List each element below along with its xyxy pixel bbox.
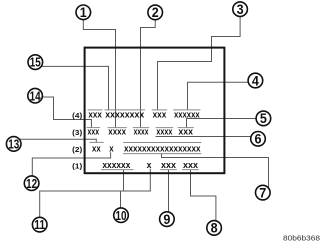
svg-text:xxxx: xxxx xyxy=(156,127,173,138)
svg-text:x: x xyxy=(109,144,114,155)
svg-text:xxxx: xxxx xyxy=(134,127,149,138)
svg-text:xxx: xxx xyxy=(178,127,193,138)
svg-text:x: x xyxy=(147,160,152,171)
svg-text:14: 14 xyxy=(30,88,42,103)
svg-text:xxx: xxx xyxy=(88,127,100,138)
svg-text:5: 5 xyxy=(260,110,267,126)
svg-text:1: 1 xyxy=(80,4,87,20)
svg-text:8: 8 xyxy=(211,220,218,236)
svg-text:15: 15 xyxy=(30,55,41,70)
svg-text:xxx: xxx xyxy=(88,109,102,120)
svg-text:3: 3 xyxy=(237,1,244,17)
svg-text:2: 2 xyxy=(152,4,159,20)
svg-text:12: 12 xyxy=(26,176,37,191)
svg-text:xxxxxxxxxxxxxxxxx: xxxxxxxxxxxxxxxxx xyxy=(124,144,201,155)
svg-text:(4): (4) xyxy=(72,111,83,120)
svg-text:4: 4 xyxy=(252,72,259,88)
svg-text:10: 10 xyxy=(116,208,127,223)
svg-text:xxx: xxx xyxy=(183,160,199,171)
svg-text:xxx: xxx xyxy=(161,160,177,171)
svg-text:9: 9 xyxy=(163,211,170,227)
svg-text:xxx: xxx xyxy=(153,109,167,120)
svg-text:13: 13 xyxy=(8,136,19,151)
svg-text:(2): (2) xyxy=(72,145,83,154)
svg-text:(1): (1) xyxy=(72,162,83,171)
svg-text:xxxx: xxxx xyxy=(108,127,126,138)
svg-text:xxxxxx: xxxxxx xyxy=(174,109,200,120)
svg-text:7: 7 xyxy=(259,184,266,200)
svg-text:80b6b368: 80b6b368 xyxy=(283,234,320,243)
svg-text:xxxxxxxx: xxxxxxxx xyxy=(105,109,145,120)
svg-text:(3): (3) xyxy=(72,128,83,137)
svg-text:xxxxxx: xxxxxx xyxy=(102,160,131,171)
svg-text:11: 11 xyxy=(34,217,45,232)
svg-text:xx: xx xyxy=(92,144,101,155)
svg-text:6: 6 xyxy=(255,131,262,147)
